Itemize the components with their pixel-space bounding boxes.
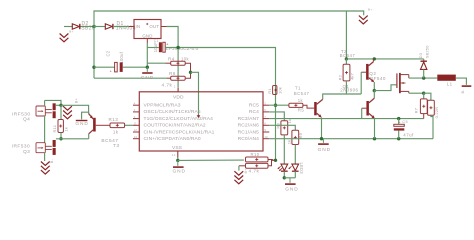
svg-text:0.22R: 0.22R xyxy=(434,107,439,119)
resistor R4 xyxy=(171,61,186,65)
svg-text:COUT/T0CKI/INT/AN2/RA2: COUT/T0CKI/INT/AN2/RA2 xyxy=(144,123,206,129)
junction gate node top xyxy=(59,104,62,107)
transistor Q1 2N3906 xyxy=(366,101,369,116)
svg-text:VSS: VSS xyxy=(172,145,183,151)
transistor Q3 IRF530 xyxy=(36,143,45,153)
wire VSS to GND xyxy=(177,158,179,161)
junction divider output xyxy=(189,71,192,74)
wire RC2 to R9 xyxy=(269,125,295,130)
pin GND stub of IC1 xyxy=(146,39,148,44)
wire B+ rail to D3 xyxy=(346,58,423,60)
svg-text:IN: IN xyxy=(136,24,141,29)
wire sense to C5 xyxy=(398,119,400,124)
wire GND to R4 xyxy=(147,62,165,64)
junction GND node xyxy=(146,66,149,69)
wire +5V OUT down to VDD xyxy=(167,27,179,88)
wire rail to R2 xyxy=(345,59,347,64)
svg-text:RC0/AN4: RC0/AN4 xyxy=(238,136,260,142)
svg-text:CIN-/VREF/ICSPCLK/AN1/RA1: CIN-/VREF/ICSPCLK/AN1/RA1 xyxy=(144,129,215,135)
svg-text:R13: R13 xyxy=(109,117,119,122)
wire regulator GND down xyxy=(146,43,148,67)
svg-text:12: 12 xyxy=(134,128,138,132)
diode D1 xyxy=(105,24,112,29)
svg-text:T1: T1 xyxy=(295,85,301,90)
svg-text:2N3906: 2N3906 xyxy=(340,88,358,93)
svg-text:RC1/AN5: RC1/AN5 xyxy=(238,129,260,135)
resistor R13 xyxy=(110,123,125,128)
wire R9 to LED3 xyxy=(294,145,296,164)
wire T2 emitter to gate node xyxy=(373,82,375,91)
svg-text:4.7k: 4.7k xyxy=(162,82,173,88)
svg-text:100uf: 100uf xyxy=(119,51,124,63)
arrow to AN3/RA4 pin xyxy=(197,115,201,118)
lead R6 left xyxy=(167,77,171,79)
wire gate node to Q2 gate xyxy=(374,85,396,91)
svg-text:4k7: 4k7 xyxy=(350,72,355,80)
capacitor C2 100uF xyxy=(115,62,118,72)
wire C5 bottom to GND rail xyxy=(398,131,400,139)
wire Q2 source xyxy=(409,92,424,94)
svg-text:14: 14 xyxy=(172,153,176,157)
junction rail at R10 divider xyxy=(274,159,277,162)
svg-text:VPP/MCLR/RA3: VPP/MCLR/RA3 xyxy=(144,103,181,109)
wire node to D1 xyxy=(94,26,105,28)
svg-text:R7: R7 xyxy=(414,107,419,113)
svg-text:RC5: RC5 xyxy=(249,103,259,109)
ground B- flag right xyxy=(462,85,472,87)
svg-text:RC3/AN7: RC3/AN7 xyxy=(238,116,260,122)
svg-text:Q3: Q3 xyxy=(23,149,30,155)
resistor R8 xyxy=(281,121,288,135)
supply flag B+ top-right xyxy=(359,16,368,24)
svg-text:L1: L1 xyxy=(447,82,453,87)
diode D2 xyxy=(72,24,79,29)
svg-text:C1: C1 xyxy=(154,39,159,43)
junction pulldown xyxy=(373,137,376,140)
svg-text:B+: B+ xyxy=(368,8,373,12)
LED LED2 xyxy=(281,164,288,171)
svg-text:10uF: 10uF xyxy=(153,42,158,53)
svg-text:R11: R11 xyxy=(52,124,57,132)
svg-text:CIN+/ICSPDAT/AN0/RA0: CIN+/ICSPDAT/AN0/RA0 xyxy=(144,136,201,142)
resistor R12 4.7k xyxy=(246,163,269,168)
svg-text:SB250: SB250 xyxy=(424,45,429,59)
junction T1 emitter xyxy=(320,137,323,140)
junction rail at RC5 row xyxy=(274,104,277,107)
wire battery input stub xyxy=(64,26,72,28)
svg-text:4.7k: 4.7k xyxy=(249,169,260,175)
svg-text:B+: B+ xyxy=(75,98,79,103)
svg-text:R1: R1 xyxy=(267,88,272,94)
junction LED2 cathode xyxy=(283,176,286,179)
ground GND4 xyxy=(289,178,291,183)
wire top B+ rail xyxy=(94,11,364,27)
resistor R2 xyxy=(343,64,350,81)
svg-text:47uf: 47uf xyxy=(403,133,414,138)
svg-text:D3: D3 xyxy=(418,52,423,58)
svg-text:1k: 1k xyxy=(287,119,292,124)
resistor R5 xyxy=(289,103,303,107)
svg-text:BC547: BC547 xyxy=(294,91,310,96)
svg-text:RC4: RC4 xyxy=(249,109,259,115)
pin VDD of U1 xyxy=(177,88,179,92)
resistor R6 xyxy=(171,76,186,80)
svg-text:1: 1 xyxy=(174,85,176,89)
svg-text:Q4: Q4 xyxy=(23,117,30,123)
wire GND to C1 left plate xyxy=(147,47,159,49)
svg-text:BC547: BC547 xyxy=(340,53,356,58)
svg-text:OSC1/CLKIN/T1CKI/RA5: OSC1/CLKIN/T1CKI/RA5 xyxy=(144,109,201,115)
transistor T2 BC547 symbol xyxy=(366,64,369,80)
svg-text:B+: B+ xyxy=(69,30,74,34)
wire R2 to base node xyxy=(345,81,347,94)
svg-text:1k: 1k xyxy=(286,140,291,145)
wire +5V rail right and down xyxy=(165,48,275,161)
svg-text:RC2/AN6: RC2/AN6 xyxy=(238,123,260,129)
wire battery to R6 xyxy=(94,77,167,79)
wire Q1 emitter to GND rail xyxy=(374,118,376,139)
svg-text:13: 13 xyxy=(134,135,138,139)
svg-text:+: + xyxy=(398,121,401,125)
resistor R14 0.22R shunt xyxy=(428,100,435,115)
svg-text:1k: 1k xyxy=(64,127,69,132)
pins of U1 right side xyxy=(263,105,269,139)
junction +5V at VDD column xyxy=(176,46,179,49)
junction B+ rail xyxy=(345,57,348,60)
wire to R11 xyxy=(60,105,62,119)
wire L1 to B- xyxy=(456,78,467,85)
wire Q4 gate to column xyxy=(56,104,61,106)
wire Q4 drain up xyxy=(44,100,46,106)
wire B+ drop to T2 rail xyxy=(345,11,347,59)
wire R12 to B+ flag xyxy=(238,166,240,171)
svg-text:R10: R10 xyxy=(251,152,260,157)
pins of U1 left side xyxy=(133,105,139,139)
transistor Q2 IRF540 xyxy=(396,73,398,88)
junction VSS node xyxy=(176,159,179,162)
wire R13 to RA2 pin xyxy=(125,124,133,126)
svg-text:LED3: LED3 xyxy=(299,163,304,175)
wire Q2 drain to L1 xyxy=(409,77,438,79)
lead R10 right xyxy=(268,159,275,162)
svg-text:GND: GND xyxy=(285,187,298,193)
wire rail to D3 cathode xyxy=(423,59,425,61)
wire GND rail to R10 xyxy=(178,159,244,161)
wire T3 emitter to GND xyxy=(82,112,89,119)
svg-text:R5: R5 xyxy=(298,108,305,113)
wire D2 cathode to node xyxy=(81,26,95,28)
wire base node to T2 base xyxy=(360,72,362,94)
svg-text:B-: B- xyxy=(50,159,54,163)
wire LED cathodes join xyxy=(284,177,295,179)
svg-text:C5: C5 xyxy=(402,120,408,124)
junction T2 collector xyxy=(373,57,376,60)
wire LED3 cathode xyxy=(294,171,296,178)
wire C2 right to GND node xyxy=(123,66,148,68)
wire RC4 to R8 xyxy=(269,112,284,121)
svg-text:IRF530: IRF530 xyxy=(12,144,30,150)
svg-text:1k: 1k xyxy=(113,130,119,135)
wire R8 to LED2 xyxy=(283,135,285,164)
resistor R1 on +5V column xyxy=(273,86,277,95)
svg-text:GND: GND xyxy=(75,121,88,127)
svg-text:GND: GND xyxy=(141,75,154,81)
junction R11/Q3 gate xyxy=(59,137,62,140)
wire GND rail right xyxy=(269,138,433,140)
lead R4 right xyxy=(185,63,190,72)
svg-text:IRF530: IRF530 xyxy=(12,111,30,117)
transistor Q4 IRF530 xyxy=(36,106,45,116)
wire Q1 base to sense line xyxy=(361,108,363,118)
junction C5 bottom xyxy=(397,137,400,140)
supply flag B- bottom-left xyxy=(41,162,50,175)
capacitor C1 10uF xyxy=(159,42,162,52)
wire D1 to regulator IN xyxy=(113,26,129,28)
resistor R7 xyxy=(420,99,427,114)
wire source to R7 xyxy=(423,93,425,99)
junction drain node xyxy=(422,76,425,79)
lead R6 right xyxy=(185,72,190,78)
svg-text:IRF540: IRF540 xyxy=(368,76,386,81)
junction sense at C5 xyxy=(397,117,400,120)
junction D2/D1 xyxy=(92,25,95,28)
microcontroller U1 PIC16F684 xyxy=(139,92,263,151)
wire R11 bottom xyxy=(60,133,62,139)
wire battery node down xyxy=(93,27,95,79)
ground GND2 xyxy=(177,160,179,166)
junction source node xyxy=(422,92,425,95)
lead R5 right xyxy=(303,105,314,108)
ground GND3 xyxy=(76,120,88,121)
lead R7 bottom xyxy=(423,114,425,119)
svg-text:+: + xyxy=(110,70,113,74)
wire current sense RC3/AN7 xyxy=(269,118,423,120)
pin IN stub of IC1 xyxy=(129,26,134,28)
diode D3 xyxy=(421,60,427,62)
resistor R9 xyxy=(292,130,299,144)
svg-text:11: 11 xyxy=(134,122,137,126)
wire divider to AN3/RA4 xyxy=(191,72,199,116)
svg-text:R9: R9 xyxy=(298,132,303,138)
lead R12 right xyxy=(268,160,275,166)
svg-text:GND: GND xyxy=(142,34,152,39)
wire shunt bottom to GND rail xyxy=(431,115,433,138)
svg-text:10: 10 xyxy=(264,135,268,139)
svg-text:10k: 10k xyxy=(277,87,282,94)
svg-text:B-: B- xyxy=(461,89,465,93)
transistor T3 BC547 xyxy=(93,118,96,132)
wire source to shunt xyxy=(424,93,431,100)
svg-text:R2: R2 xyxy=(338,74,343,80)
resistor R10 xyxy=(246,157,269,162)
svg-text:1k: 1k xyxy=(298,98,304,103)
wire to C2 left plate xyxy=(94,66,115,68)
wire D3 anode to drain node xyxy=(423,69,425,78)
voltage regulator IC1 LP2950CZ-5.0 xyxy=(134,20,161,39)
wire drain to gate column xyxy=(45,100,61,105)
svg-text:R6: R6 xyxy=(169,71,176,76)
svg-text:T3: T3 xyxy=(113,143,120,149)
svg-text:OUT: OUT xyxy=(149,24,159,29)
wire Q4 source to Q3 drain xyxy=(44,116,46,143)
svg-text:B+: B+ xyxy=(244,169,248,174)
svg-text:C2: C2 xyxy=(105,50,110,56)
wire Q3 source to B- xyxy=(44,153,46,161)
supply flag B+ top-left xyxy=(60,34,69,42)
svg-text:GND: GND xyxy=(318,147,331,153)
wire gate node to T3 xyxy=(61,105,89,113)
supply flag B+ left xyxy=(63,106,72,119)
svg-text:10k: 10k xyxy=(181,56,190,61)
junction gate node xyxy=(373,89,376,92)
inductor L1 load xyxy=(437,75,456,81)
wire T3 collector down xyxy=(88,134,90,139)
ground GND5 xyxy=(322,139,324,143)
wire gate bottom node xyxy=(56,138,89,140)
transistor T1 BC547 xyxy=(314,102,317,115)
svg-text:R4: R4 xyxy=(168,56,175,61)
ground GND1 xyxy=(146,67,148,72)
wire RC5 to R5 xyxy=(269,104,289,106)
junction at C2 left xyxy=(92,66,95,69)
capacitor C5 47uF xyxy=(394,124,405,126)
resistor R11 xyxy=(58,120,63,133)
wire T5 emitter to GND rail xyxy=(321,117,323,138)
svg-text:GND: GND xyxy=(173,169,186,175)
svg-text:VDD: VDD xyxy=(173,95,184,101)
svg-text:T1G/OSC2/CLKOUT/AN3/RA4: T1G/OSC2/CLKOUT/AN3/RA4 xyxy=(144,116,214,122)
lead R4 left xyxy=(166,62,171,64)
wire LED2 cathode xyxy=(283,171,285,178)
pin OUT stub xyxy=(161,26,167,28)
lead R12 left xyxy=(239,165,246,167)
supply flag B+ bottom xyxy=(234,171,243,184)
svg-text:+: + xyxy=(166,42,169,47)
wire T5 collector to base node xyxy=(323,94,362,99)
LED LED3 xyxy=(292,164,299,171)
pin VSS of U1 xyxy=(177,151,179,158)
wire Q1 collector to gate node xyxy=(373,91,375,99)
